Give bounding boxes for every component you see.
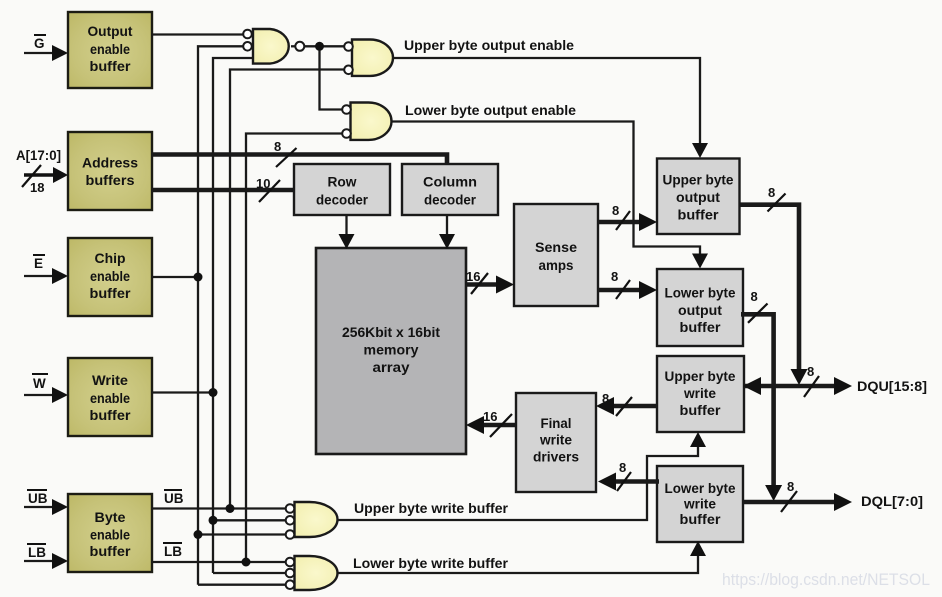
wire E to gate A5 input3 [198, 584, 286, 586]
bus slash 8 DQL [781, 479, 797, 512]
input LB label [27, 544, 46, 560]
svg-text:8: 8 [602, 391, 609, 406]
output enable buffer box [68, 12, 152, 88]
svg-text:Upper byte: Upper byte [663, 173, 734, 188]
svg-text:8: 8 [751, 289, 758, 304]
wire UB buffer output [152, 507, 286, 509]
bus slash 8 upper read [768, 185, 786, 212]
gate A2 and body [344, 40, 393, 76]
svg-text:array: array [373, 360, 411, 375]
bus slash 16 write [483, 409, 512, 437]
wire column decoder to memory array [439, 215, 455, 249]
svg-text:Lower byte output enable: Lower byte output enable [405, 103, 577, 118]
wire E buffer output [152, 276, 198, 278]
svg-text:enable: enable [90, 42, 130, 57]
svg-text:write: write [539, 433, 573, 448]
bus slash 8 lower read [748, 289, 768, 323]
wire E to gate A4 input3 [198, 533, 286, 535]
gate A3 input bubble 1 [342, 105, 351, 114]
wire lower byte output enable [392, 122, 708, 269]
gate A4 input bubble 2 [286, 516, 295, 525]
svg-text:DQU[15:8]: DQU[15:8] [857, 379, 927, 394]
wire W to gate A4 input2 [213, 519, 286, 521]
svg-text:Row: Row [328, 175, 358, 190]
wire W buffer output [152, 391, 213, 393]
wire U1 output to A2 input1 [304, 45, 345, 47]
svg-text:UB: UB [164, 491, 184, 506]
bus slash 16 read [466, 269, 488, 294]
svg-text:buffer: buffer [678, 208, 720, 223]
svg-text:DQL[7:0]: DQL[7:0] [861, 494, 923, 509]
bus slash 8 lower write [617, 460, 631, 491]
input W label [32, 374, 48, 391]
input E arrow [24, 268, 68, 284]
svg-text:Address: Address [82, 156, 138, 171]
svg-text:16: 16 [483, 409, 497, 424]
wire gate A5 output to lower byte write buffer [338, 541, 707, 573]
wire upper byte output enable [392, 58, 708, 158]
input LB arrow [24, 553, 68, 569]
net label LB internal [163, 543, 182, 559]
gate A2 input bubble 1 [344, 42, 353, 51]
svg-text:buffer: buffer [680, 512, 722, 527]
input W arrow [24, 387, 68, 403]
svg-text:buffer: buffer [90, 544, 132, 559]
gate A4 input bubble 1 [286, 504, 295, 513]
write enable buffer box [68, 358, 152, 436]
svg-text:buffer: buffer [90, 59, 132, 74]
junction node E gate A4 [194, 530, 203, 539]
wire W to gate A5 input2 [213, 572, 286, 574]
bus address low 10 to row decoder [152, 188, 294, 193]
svg-text:8: 8 [619, 460, 626, 475]
upper byte output buffer box [657, 159, 740, 235]
input A[17:0] label [16, 148, 61, 163]
svg-text:enable: enable [90, 528, 130, 543]
junction node W buffer [209, 388, 218, 397]
svg-text:memory: memory [364, 343, 420, 358]
input G label [34, 35, 46, 51]
input E label [33, 255, 45, 271]
wire G buffer to gate U1 [152, 33, 244, 35]
svg-text:buffer: buffer [90, 408, 132, 423]
gate U1 input bubble 1 [243, 30, 252, 39]
lower byte output buffer box [657, 269, 743, 346]
junction node W gate A4 [209, 516, 218, 525]
svg-text:8: 8 [612, 203, 619, 218]
memory array box [316, 248, 466, 454]
svg-text:E: E [34, 256, 43, 271]
svg-text:Sense: Sense [535, 240, 578, 255]
junction node U1 output [315, 42, 324, 51]
gate A3 and body [342, 103, 391, 140]
svg-text:Upper byte write buffer: Upper byte write buffer [354, 501, 509, 516]
address buffers box [68, 132, 152, 210]
gate A5 input bubble 1 [286, 558, 295, 567]
svg-text:enable: enable [90, 391, 130, 406]
svg-text:decoder: decoder [424, 193, 477, 208]
svg-text:G: G [34, 36, 45, 51]
bus slash 10 row [256, 176, 280, 202]
lower byte write buffer box [657, 466, 743, 542]
junction node LB [242, 558, 251, 567]
final write drivers box [516, 393, 596, 492]
bus lower output buffer to DQL 8 [741, 314, 782, 501]
svg-text:8: 8 [611, 269, 618, 284]
bus slash 8 sense upper [612, 203, 630, 230]
svg-text:Chip: Chip [95, 251, 126, 266]
wire row decoder to memory array [339, 215, 355, 249]
svg-text:Column: Column [423, 175, 477, 190]
input UB label [27, 490, 48, 506]
junction node UB [226, 504, 235, 513]
svg-text:decoder: decoder [316, 193, 369, 208]
gate A2 input bubble 2 [344, 66, 353, 75]
gate A5 input bubble 2 [286, 569, 295, 578]
svg-text:Upper byte: Upper byte [665, 369, 736, 384]
wire U1 output stub [291, 45, 296, 47]
svg-text:buffers: buffers [86, 173, 135, 188]
upper byte write buffer box [657, 356, 744, 432]
svg-text:LB: LB [28, 545, 46, 560]
svg-text:A[17:0]: A[17:0] [16, 148, 61, 163]
svg-text:Byte: Byte [95, 510, 127, 525]
svg-text:Final: Final [541, 416, 572, 431]
bus sense to lower output buffer 8 [598, 281, 657, 299]
net label UB internal [164, 490, 184, 506]
wire LB vertical net [246, 134, 342, 563]
gate A5 and body [286, 556, 338, 590]
svg-text:UB: UB [28, 491, 48, 506]
input A arrow [24, 167, 68, 183]
svg-text:Lower byte write buffer: Lower byte write buffer [353, 556, 509, 571]
svg-text:amps: amps [539, 258, 574, 273]
column decoder box [402, 164, 498, 215]
wire UB vertical net [230, 70, 345, 510]
bus lower write buffer to final write drivers 8 [598, 473, 659, 491]
svg-text:drivers: drivers [533, 450, 579, 465]
gate A4 and body [286, 502, 338, 539]
byte enable buffer box [68, 494, 152, 572]
gate A5 input bubble 3 [286, 580, 295, 589]
svg-text:10: 10 [256, 176, 270, 191]
svg-text:16: 16 [466, 269, 480, 284]
bus slash 8 sense lower [611, 269, 630, 299]
svg-text:https://blog.csdn.net/NETSOL: https://blog.csdn.net/NETSOL [722, 570, 930, 589]
bus upper write buffer to final write drivers 8 [596, 397, 657, 415]
svg-text:8: 8 [768, 185, 775, 200]
svg-text:18: 18 [30, 180, 44, 195]
bus slash 8 column [274, 139, 297, 167]
svg-text:buffer: buffer [680, 320, 722, 335]
bus slash 8 upper write [602, 391, 632, 416]
svg-text:enable: enable [90, 269, 130, 284]
bus final write drivers to memory 16 [466, 416, 516, 434]
svg-text:Lower byte: Lower byte [665, 481, 736, 496]
gate A3 input bubble 2 [342, 129, 351, 138]
wire LB buffer output [152, 561, 286, 563]
svg-text:Output: Output [88, 24, 134, 39]
bus upper output buffer to DQU 8 [739, 205, 808, 385]
svg-text:output: output [678, 303, 723, 318]
bus slash 18 [22, 165, 44, 195]
svg-text:write: write [683, 497, 717, 512]
bus DQU line [743, 377, 852, 395]
wire W vertical net [213, 58, 253, 573]
wire node to gate A3 input1 [320, 46, 343, 109]
input UB arrow [24, 499, 68, 515]
svg-text:Write: Write [92, 373, 129, 388]
bus slash 8 DQU [804, 364, 819, 397]
svg-text:Upper byte output enable: Upper byte output enable [404, 38, 575, 53]
svg-text:8: 8 [274, 139, 281, 154]
row decoder box [294, 164, 390, 215]
wire gate A4 output to upper byte write buffer [338, 432, 707, 520]
svg-text:8: 8 [787, 479, 794, 494]
gate U1 input bubble 2 [243, 42, 252, 51]
svg-text:256Kbit x 16bit: 256Kbit x 16bit [342, 325, 441, 340]
svg-text:output: output [676, 190, 721, 205]
gate U1 output bubble [295, 42, 304, 51]
svg-text:Lower byte: Lower byte [665, 286, 736, 301]
gate A4 input bubble 3 [286, 530, 295, 539]
chip enable buffer box [68, 238, 152, 316]
wire E vertical net [198, 46, 244, 584]
svg-text:write: write [683, 386, 717, 401]
bus sense to upper output buffer 8 [598, 213, 657, 231]
svg-text:W: W [33, 376, 46, 391]
svg-text:LB: LB [164, 544, 182, 559]
svg-text:buffer: buffer [90, 286, 132, 301]
bus memory to sense amps 16 [466, 276, 514, 294]
bus DQL line [743, 493, 852, 511]
svg-text:buffer: buffer [680, 403, 722, 418]
gate U1 nand body [243, 29, 304, 64]
sense amps box [514, 204, 598, 306]
input G arrow [24, 45, 68, 61]
junction node E buffer [194, 273, 203, 282]
svg-text:8: 8 [807, 364, 814, 379]
bus address high 8 to column decoder [152, 155, 447, 165]
